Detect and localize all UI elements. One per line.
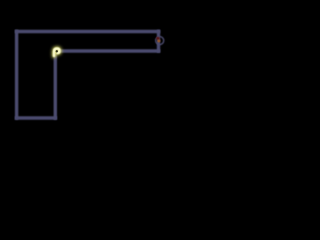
component circle (source/lamp body) on right vertical wire xyxy=(156,37,164,45)
wire: middle horizontal segment (node to component) xyxy=(54,49,161,52)
wire: bottom horizontal segment xyxy=(15,116,57,119)
wire: middle vertical segment (node to bottom) xyxy=(54,49,57,119)
node: highlighted glowing corner junction xyxy=(54,48,60,56)
red mark inside component circle xyxy=(156,37,160,40)
wire: left vertical segment xyxy=(15,30,18,120)
orange mark inside component circle xyxy=(157,40,160,43)
wire: top horizontal segment xyxy=(15,30,160,33)
wire: right vertical segment (through component) xyxy=(157,30,160,53)
